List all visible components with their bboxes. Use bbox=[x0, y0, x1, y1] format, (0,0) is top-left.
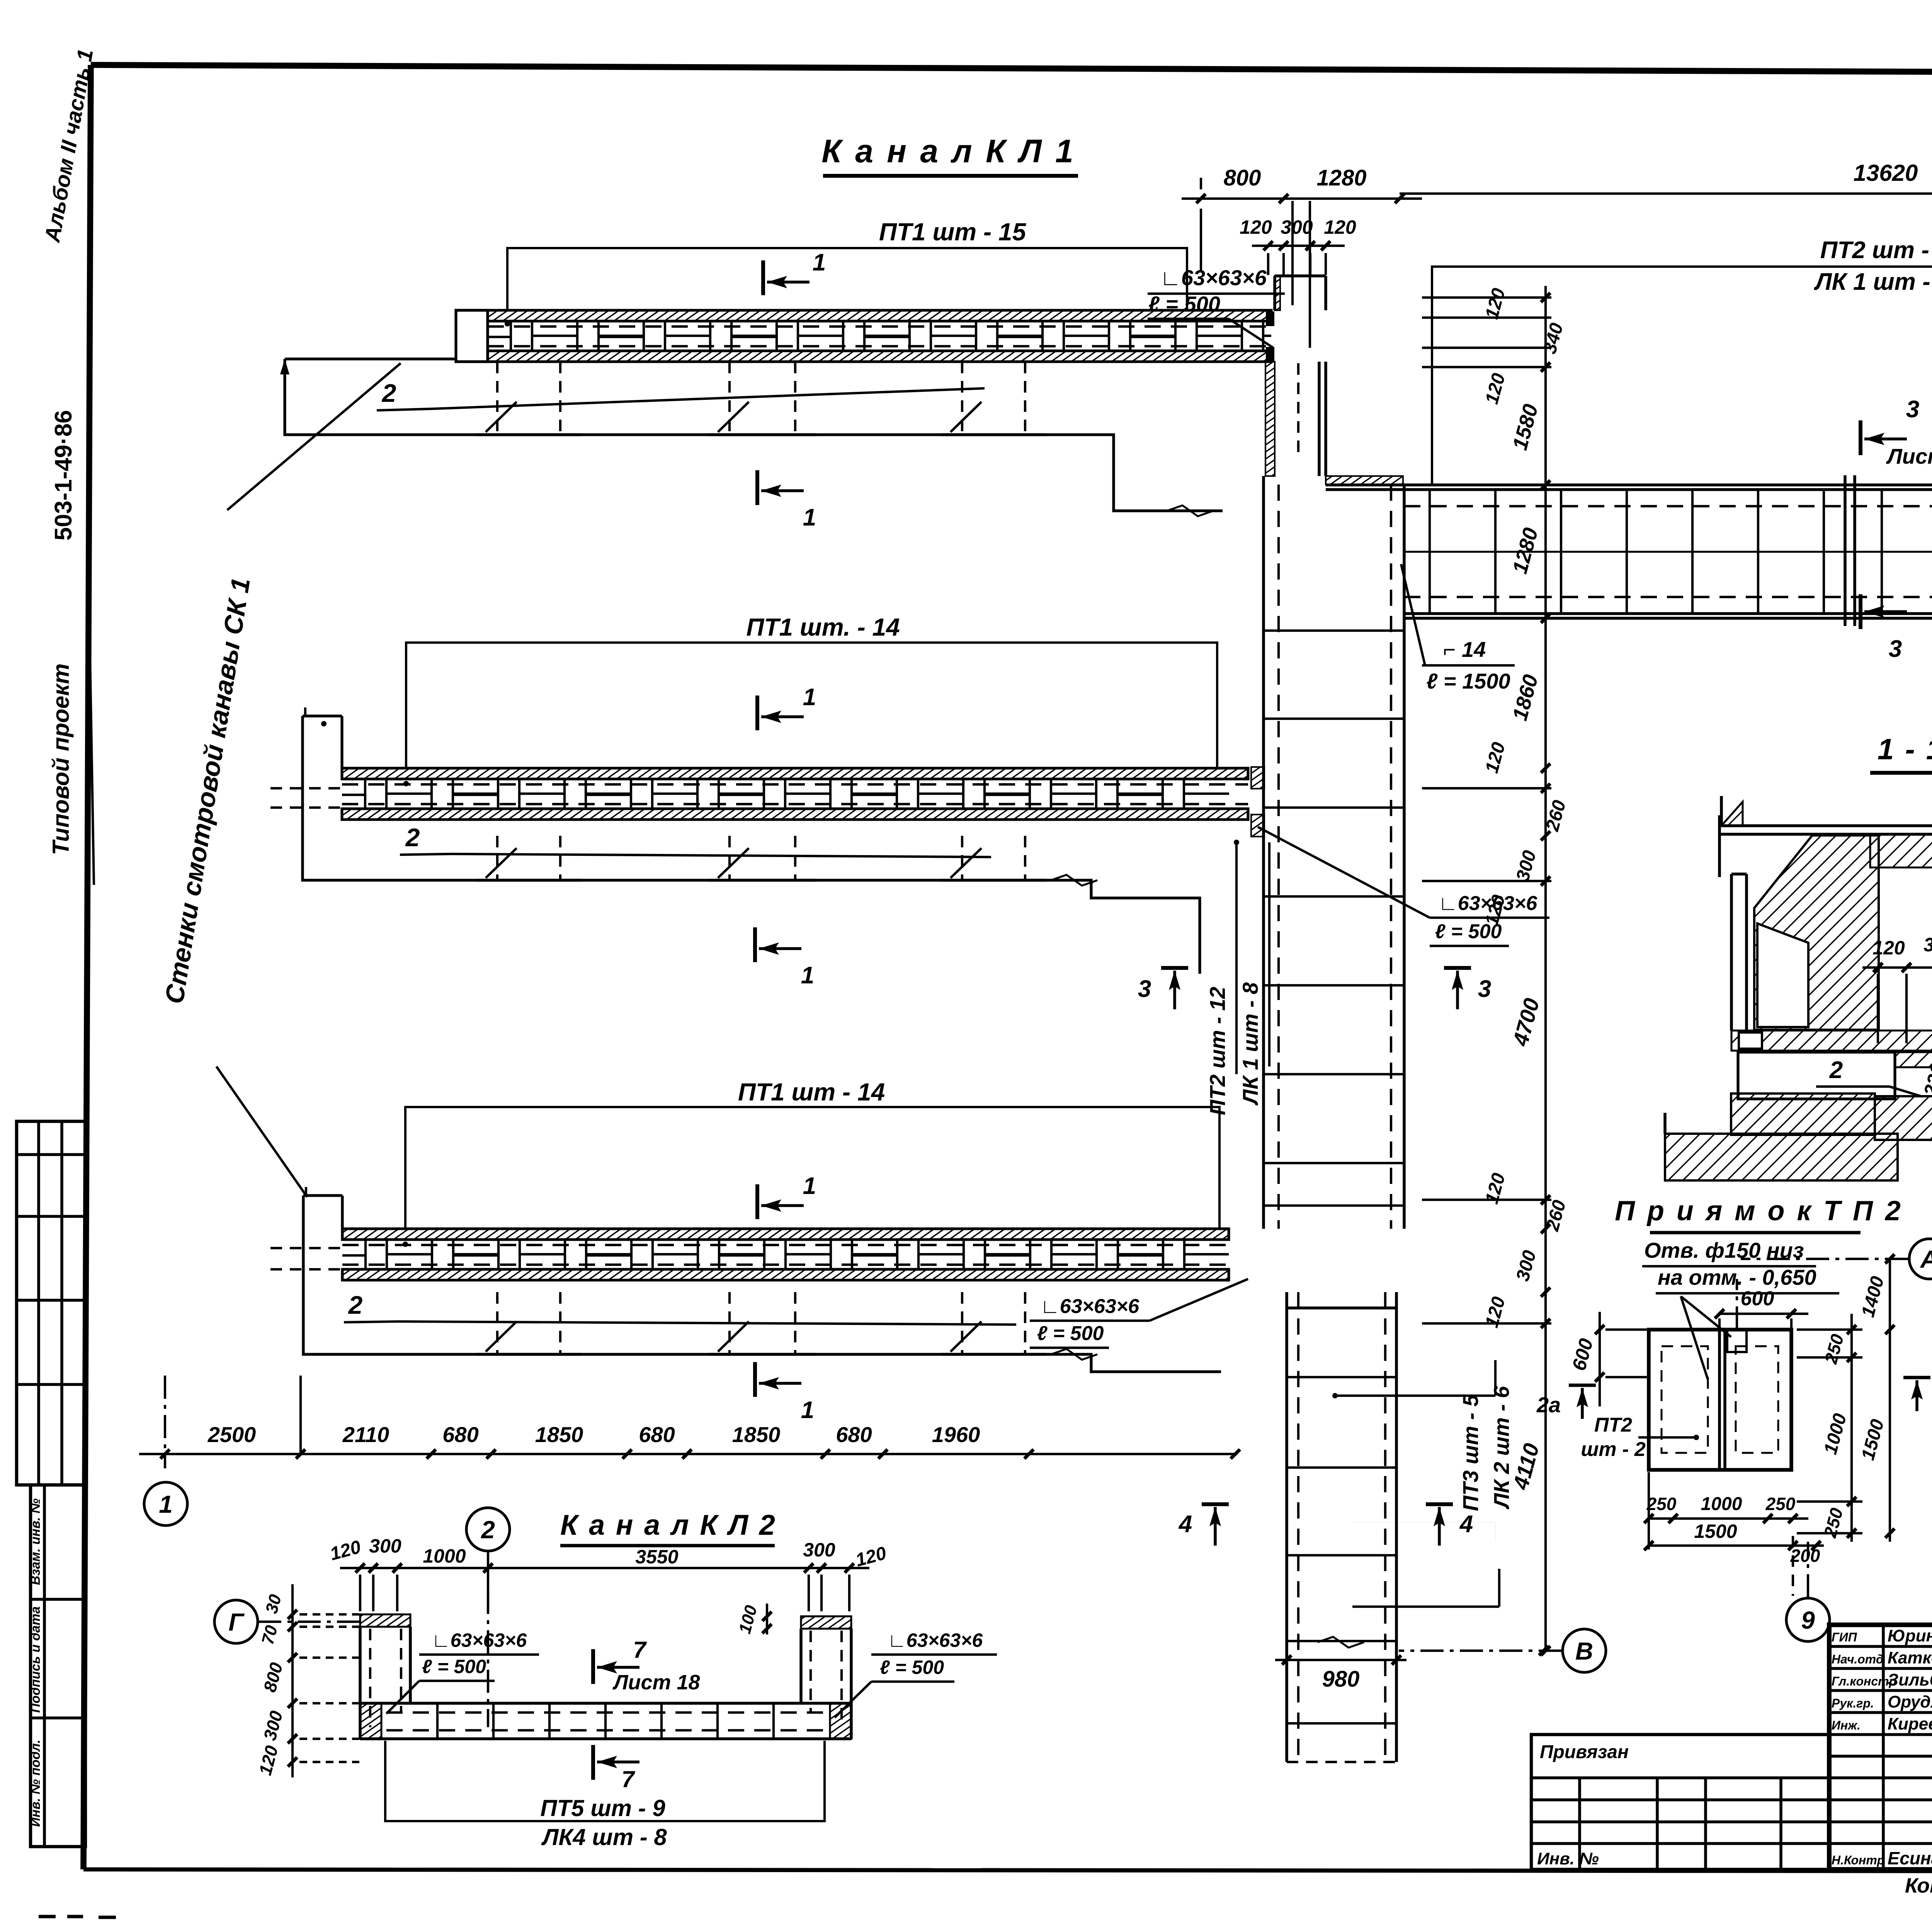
title block outer bbox=[1829, 1625, 1932, 1869]
section marker 3 up left bbox=[1161, 966, 1188, 970]
priyamok marker 2a left bbox=[1569, 1384, 1596, 1387]
right channel bottom walls bbox=[1404, 612, 1932, 615]
grid circle A bbox=[1909, 1239, 1932, 1279]
svg-text:ПТ1 шт. - 14: ПТ1 шт. - 14 bbox=[746, 613, 900, 641]
svg-text:7: 7 bbox=[633, 1637, 647, 1663]
svg-text:Лист 18: Лист 18 bbox=[1886, 444, 1932, 468]
vertical channel junction walls below strip1 bbox=[1265, 362, 1275, 476]
svg-text:2: 2 bbox=[381, 379, 396, 407]
svg-text:Г: Г bbox=[228, 1608, 245, 1636]
svg-text:680: 680 bbox=[442, 1422, 478, 1447]
svg-text:1: 1 bbox=[801, 962, 814, 989]
strip2 left stub wall bbox=[303, 714, 342, 717]
svg-text:ЛК4 шт - 8: ЛК4 шт - 8 bbox=[541, 1824, 667, 1850]
svg-text:∟63×63×6: ∟63×63×6 bbox=[1160, 265, 1267, 290]
section marker 4 up right bbox=[1426, 1502, 1453, 1506]
svg-text:Катков: Катков bbox=[1888, 1648, 1932, 1667]
priyamok notch bbox=[1727, 1330, 1747, 1352]
svg-text:∟63×63×6: ∟63×63×6 bbox=[432, 1629, 527, 1651]
svg-text:680: 680 bbox=[639, 1422, 675, 1447]
svg-text:2: 2 bbox=[481, 1516, 495, 1544]
sec1-1 top right slab hatch bbox=[1870, 834, 1932, 867]
priyamok dim 1500 1400 chain bbox=[1889, 1259, 1891, 1542]
vertical channel main walls bbox=[1262, 476, 1265, 1229]
KL1 plan strip2 slabs PT1 bbox=[342, 768, 1248, 779]
priyamok inner dashed bbox=[1662, 1346, 1708, 1453]
svg-text:3: 3 bbox=[1138, 976, 1151, 1002]
svg-text:600: 600 bbox=[1741, 1287, 1774, 1310]
junction ext ticks bbox=[1422, 296, 1551, 299]
sec1-1 right heel hatch bbox=[1895, 1052, 1932, 1067]
dim 980 below channel bbox=[1275, 1659, 1406, 1661]
section marker 4 up left bbox=[1202, 1502, 1229, 1506]
sec1-1 floor band bbox=[1731, 1094, 1875, 1135]
svg-text:2: 2 bbox=[1829, 1057, 1843, 1083]
margin table bbox=[17, 1121, 85, 1485]
svg-text:∟63×63×6: ∟63×63×6 bbox=[1040, 1295, 1139, 1318]
svg-text:120: 120 bbox=[1324, 216, 1356, 238]
svg-text:9: 9 bbox=[1801, 1606, 1815, 1634]
svg-text:Гл.констр: Гл.констр bbox=[1832, 1674, 1896, 1688]
leader to strip3 stub bbox=[216, 1066, 307, 1197]
svg-text:Лист 18: Лист 18 bbox=[612, 1671, 700, 1694]
sec1-1 inner void white bbox=[1757, 923, 1808, 1027]
svg-text:Киреев: Киреев bbox=[1888, 1714, 1932, 1733]
right channel top wall hatch at junction bbox=[1326, 476, 1403, 485]
svg-text:2: 2 bbox=[348, 1291, 363, 1319]
sec1-1 floor right extension bbox=[1875, 1096, 1932, 1140]
svg-text:Нач.отд: Нач.отд bbox=[1832, 1652, 1884, 1666]
svg-text:ПТ2 шт - 26: ПТ2 шт - 26 bbox=[1820, 237, 1932, 264]
svg-text:1960: 1960 bbox=[932, 1422, 980, 1447]
section marker 3 below channel bbox=[1859, 594, 1862, 629]
svg-text:ПТ1 шт - 14: ПТ1 шт - 14 bbox=[738, 1078, 885, 1106]
dim line 800 1280 over stub bbox=[1182, 197, 1422, 200]
strip3 junction dim cluster bbox=[1541, 1195, 1550, 1204]
strip3 section marker 1 below bbox=[753, 1362, 757, 1397]
svg-text:1500: 1500 bbox=[1694, 1520, 1737, 1542]
svg-text:1 - 1: 1 - 1 bbox=[1878, 733, 1932, 766]
svg-text:3550: 3550 bbox=[635, 1546, 678, 1568]
vertical channel walls below strip3 bbox=[1285, 1292, 1288, 1762]
junction vertical dim line bbox=[1544, 286, 1547, 769]
svg-text:1850: 1850 bbox=[732, 1422, 781, 1447]
KL2 bottom bar bbox=[360, 1702, 851, 1705]
strip2 section marker 1 above bbox=[755, 696, 759, 730]
grid circle 9 bbox=[1786, 1598, 1830, 1641]
svg-text:1: 1 bbox=[159, 1490, 173, 1518]
svg-text:300: 300 bbox=[1281, 216, 1313, 238]
svg-text:1000: 1000 bbox=[1701, 1494, 1742, 1514]
svg-text:Есина: Есина bbox=[1888, 1848, 1932, 1868]
right channel rungs bbox=[1429, 490, 1431, 614]
KL1 plan strip3 slabs PT1 bbox=[342, 1229, 1229, 1240]
svg-text:4: 4 bbox=[1459, 1511, 1473, 1537]
dim line 13620 bbox=[1400, 192, 1932, 195]
grid circle G KL2 bbox=[214, 1600, 258, 1643]
svg-text:Юрин: Юрин bbox=[1888, 1626, 1932, 1645]
strip2 junction dim cluster bbox=[1544, 768, 1547, 1333]
sec1-1 top slab lines bbox=[1719, 824, 1932, 827]
svg-text:4: 4 bbox=[1178, 1511, 1192, 1537]
svg-text:ПТ3 шт - 5: ПТ3 шт - 5 bbox=[1458, 1394, 1483, 1511]
strip3 dashed drop columns bbox=[496, 1292, 498, 1354]
svg-text:250: 250 bbox=[1765, 1494, 1796, 1514]
priyamok plan outer bbox=[1649, 1330, 1791, 1470]
svg-text:К а н а л К Л 2: К а н а л К Л 2 bbox=[560, 1509, 777, 1541]
svg-text:300: 300 bbox=[369, 1535, 401, 1557]
right channel mid line bbox=[1404, 551, 1932, 553]
svg-text:Н.Контр: Н.Контр bbox=[1832, 1853, 1884, 1867]
KL2 right stub bbox=[801, 1616, 851, 1629]
svg-text:ℓ = 500: ℓ = 500 bbox=[880, 1656, 944, 1678]
svg-text:13620: 13620 bbox=[1854, 160, 1918, 186]
sec1-1 left channel wall bbox=[1730, 874, 1733, 1031]
svg-text:1: 1 bbox=[801, 1397, 814, 1423]
strip1 section marker 1 above bbox=[761, 260, 765, 295]
angle pieces at strip2 junction bbox=[1251, 767, 1264, 789]
svg-text:ПТ1 шт - 15: ПТ1 шт - 15 bbox=[879, 218, 1027, 246]
svg-text:Инв. № подл.: Инв. № подл. bbox=[28, 1740, 43, 1827]
strip3 callout bracket PT1 sht-14 bbox=[405, 1107, 1219, 1230]
svg-text:П р и я м о к Т П 2: П р и я м о к Т П 2 bbox=[1615, 1196, 1903, 1226]
sec1-1 left flange triangle bbox=[1721, 802, 1743, 826]
priyamok right dim chain 250 1000 250 bbox=[1850, 1314, 1853, 1542]
leader to strip1 bbox=[227, 363, 401, 510]
svg-text:980: 980 bbox=[1322, 1667, 1360, 1692]
KL1 plan strip1 slabs PT1 bbox=[488, 310, 1271, 321]
KL2 section marker 7 above bbox=[591, 1649, 595, 1684]
svg-text:Зильбертов: Зильбертов bbox=[1888, 1670, 1932, 1689]
svg-text:2а: 2а bbox=[1536, 1393, 1561, 1417]
svg-text:Рук.гр.: Рук.гр. bbox=[1832, 1696, 1874, 1710]
svg-text:7: 7 bbox=[621, 1766, 635, 1792]
svg-text:3: 3 bbox=[1478, 976, 1491, 1002]
svg-text:Подпись и дата: Подпись и дата bbox=[28, 1606, 43, 1713]
svg-text:3: 3 bbox=[1906, 396, 1919, 423]
svg-text:ℓ = 500: ℓ = 500 bbox=[422, 1656, 486, 1677]
grid circle 2 KL2 bbox=[466, 1508, 510, 1551]
svg-text:2110: 2110 bbox=[342, 1422, 389, 1447]
svg-text:1280: 1280 bbox=[1316, 165, 1366, 190]
sheet frame bbox=[91, 65, 1932, 75]
svg-text:Копировал: Сидорова: Копировал: Сидорова bbox=[1905, 1874, 1932, 1897]
svg-text:⌐ 14: ⌐ 14 bbox=[1443, 637, 1486, 662]
dim line 120 300 120 over stub bbox=[1252, 245, 1345, 247]
svg-text:503-1-49·86: 503-1-49·86 bbox=[50, 410, 77, 541]
vertical channel stub above strip1 bbox=[1273, 276, 1276, 310]
svg-text:А: А bbox=[1920, 1245, 1932, 1273]
vertical channel rungs upper bbox=[1264, 629, 1404, 632]
svg-text:ПТ2 шт - 12: ПТ2 шт - 12 bbox=[1205, 987, 1230, 1116]
svg-text:ℓ = 500: ℓ = 500 bbox=[1148, 292, 1220, 316]
vertical channel bottom break bbox=[1318, 1637, 1364, 1648]
sec1-1 mid slab band bbox=[1731, 1031, 1932, 1051]
svg-text:ПТ2: ПТ2 bbox=[1594, 1414, 1632, 1436]
section marker 3 up right bbox=[1444, 966, 1471, 970]
sec1-1 big wall block bbox=[1754, 835, 1879, 1030]
sec1-1 void band with pos2 bbox=[1738, 1052, 1895, 1099]
sec1-1 dim 120 300 120 bbox=[1862, 966, 1932, 969]
section marker 3 list18 bbox=[1859, 420, 1862, 455]
right channel callout bracket PT2/LK1 sht-26 bbox=[1432, 267, 1932, 485]
svg-text:2: 2 bbox=[405, 823, 420, 852]
svg-text:120: 120 bbox=[1872, 937, 1905, 959]
svg-text:ℓ = 1500: ℓ = 1500 bbox=[1426, 669, 1510, 693]
vertical channel rungs lower bbox=[1287, 1376, 1396, 1378]
svg-text:250: 250 bbox=[1646, 1494, 1677, 1514]
strip2 section marker 1 below bbox=[753, 927, 757, 962]
strip1 callout bracket PT1 sht-15 bbox=[507, 248, 1187, 311]
right channel inner dashed lines bbox=[1404, 505, 1932, 507]
svg-text:К а н а л К Л 1: К а н а л К Л 1 bbox=[821, 133, 1076, 169]
svg-text:1: 1 bbox=[813, 249, 826, 276]
svg-text:Взам. инв. №: Взам. инв. № bbox=[28, 1498, 43, 1585]
right channel top walls bbox=[1326, 483, 1932, 486]
svg-text:120: 120 bbox=[1240, 216, 1272, 238]
strip1 dashed drop columns bbox=[496, 362, 498, 435]
KL2 callout bracket PT5/LK4 bbox=[385, 1741, 825, 1821]
strip2 trench outline bbox=[303, 836, 1200, 974]
ext lines from chain bbox=[164, 1376, 166, 1468]
KL2 left stub bbox=[360, 1614, 410, 1627]
svg-text:ЛК 1 шт - 26: ЛК 1 шт - 26 bbox=[1814, 269, 1932, 295]
strip3 section marker 1 above bbox=[755, 1184, 759, 1219]
svg-text:1850: 1850 bbox=[535, 1422, 583, 1447]
title block signature rows bbox=[1829, 1645, 1932, 1648]
svg-text:В: В bbox=[1575, 1637, 1593, 1665]
svg-text:3: 3 bbox=[1889, 636, 1902, 662]
strip3 trench outline bbox=[303, 1292, 1221, 1372]
strip2 callout bracket PT1 sht-14 bbox=[406, 643, 1217, 769]
KL1 bottom dimension chain bbox=[139, 1453, 1235, 1455]
svg-text:800: 800 bbox=[1224, 165, 1261, 190]
svg-text:1: 1 bbox=[803, 504, 816, 531]
strip1 section marker 1 below bbox=[755, 470, 759, 505]
svg-text:2500: 2500 bbox=[207, 1422, 256, 1447]
svg-text:1000: 1000 bbox=[423, 1545, 466, 1567]
priyamok dim 600 top bbox=[1719, 1313, 1808, 1315]
KL2 section marker 7 below bbox=[591, 1745, 595, 1780]
svg-text:1: 1 bbox=[803, 684, 816, 711]
svg-text:Привязан: Привязан bbox=[1540, 1742, 1629, 1762]
strip2 dashed drop columns bbox=[496, 836, 498, 880]
svg-text:ℓ = 500: ℓ = 500 bbox=[1037, 1322, 1104, 1345]
priyamok bottom dims bbox=[1649, 1517, 1808, 1520]
grid circle 1 bbox=[144, 1482, 187, 1526]
svg-text:ПТ5 шт - 9: ПТ5 шт - 9 bbox=[540, 1795, 665, 1821]
svg-text:Инв. №: Инв. № bbox=[1537, 1849, 1599, 1868]
stray dashes bottom left bbox=[39, 1915, 83, 1918]
priyamok note leaders bbox=[1681, 1296, 1731, 1337]
svg-text:Инж.: Инж. bbox=[1832, 1718, 1861, 1732]
priyamok dim 600 left bbox=[1599, 1312, 1601, 1406]
svg-text:∟63×63×6: ∟63×63×6 bbox=[888, 1629, 983, 1651]
svg-text:300: 300 bbox=[803, 1539, 835, 1561]
dim 4110 rotated bbox=[1544, 1333, 1547, 1651]
svg-text:Оруджева: Оруджева bbox=[1888, 1692, 1932, 1711]
sec1-1 foundation slab bbox=[1665, 1134, 1898, 1180]
svg-text:680: 680 bbox=[836, 1422, 872, 1447]
title block signature columns bbox=[1882, 1625, 1885, 1869]
svg-text:300: 300 bbox=[1923, 934, 1932, 956]
svg-text:ЛК 2 шт - 6: ЛК 2 шт - 6 bbox=[1489, 1386, 1514, 1510]
svg-text:ЛК 1 шт - 8: ЛК 1 шт - 8 bbox=[1238, 982, 1262, 1106]
svg-text:ГИП: ГИП bbox=[1832, 1630, 1857, 1644]
strip3 left stub wall bbox=[303, 1194, 342, 1197]
grid circle V bbox=[1563, 1629, 1606, 1672]
KL2 left dim chain bbox=[291, 1584, 294, 1777]
svg-text:Типовой проект: Типовой проект bbox=[48, 663, 74, 855]
svg-text:1: 1 bbox=[803, 1173, 816, 1199]
strip1 trench outline bbox=[285, 357, 456, 360]
svg-text:200: 200 bbox=[1790, 1546, 1820, 1566]
right channel break bbox=[1844, 475, 1847, 626]
KL2 dim line top bbox=[340, 1567, 869, 1569]
title block left attach table bbox=[1531, 1735, 1829, 1869]
svg-text:шт - 2: шт - 2 bbox=[1581, 1438, 1646, 1461]
priyamok marker 2a right bbox=[1903, 1376, 1930, 1379]
